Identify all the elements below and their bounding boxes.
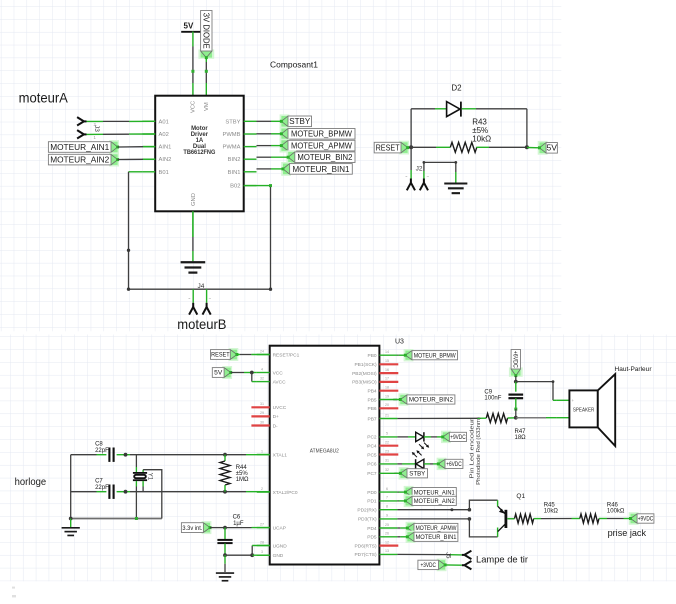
svg-text:B01: B01 bbox=[159, 170, 169, 176]
wire +6VDC down bbox=[515, 376, 517, 382]
svg-text:PB1(SCK): PB1(SCK) bbox=[354, 362, 377, 368]
wire MOTEUR_AIN1 bbox=[397, 491, 398, 493]
svg-text:3V DIODE: 3V DIODE bbox=[202, 13, 211, 49]
svg-text:12: 12 bbox=[385, 540, 389, 544]
connector J5 bbox=[462, 554, 465, 556]
svg-text:23: 23 bbox=[385, 449, 389, 453]
svg-text:PC7: PC7 bbox=[367, 471, 377, 477]
net flag MOTEUR_BPMW bbox=[280, 127, 290, 141]
svg-text:15: 15 bbox=[385, 359, 389, 363]
svg-text:10kΩ: 10kΩ bbox=[472, 135, 491, 144]
svg-text:MOTEUR_BPMW: MOTEUR_BPMW bbox=[414, 352, 457, 359]
wire 5V to VCC pin bbox=[192, 32, 194, 47]
svg-text:BIN2: BIN2 bbox=[228, 157, 241, 163]
wire 3.3v int to UCAP bbox=[210, 527, 225, 529]
svg-text:22: 22 bbox=[385, 441, 389, 445]
svg-text:A02: A02 bbox=[159, 132, 169, 138]
svg-text:30: 30 bbox=[260, 420, 264, 424]
svg-text:PB6: PB6 bbox=[368, 406, 377, 412]
svg-text:R46: R46 bbox=[607, 503, 619, 509]
wire MOTEUR_APMW bbox=[397, 527, 400, 529]
connector J2 bbox=[410, 147, 412, 170]
svg-text:C8: C8 bbox=[95, 441, 103, 447]
svg-text:18Ω: 18Ω bbox=[515, 435, 527, 441]
svg-text:PD3(TX): PD3(TX) bbox=[358, 517, 377, 523]
net flag RESET U3 bbox=[229, 348, 239, 361]
wire +6VDC to speaker pin1 bbox=[516, 382, 553, 401]
net flag +9VDC jack bbox=[629, 512, 639, 525]
resistor R47 bbox=[486, 414, 507, 423]
svg-text:PB3(MISO): PB3(MISO) bbox=[352, 380, 377, 386]
svg-text:Y1: Y1 bbox=[147, 473, 153, 481]
junction +6VDC bbox=[514, 380, 518, 384]
junction C9 bottom bbox=[514, 416, 518, 420]
ground horloge bbox=[70, 519, 72, 528]
svg-text:22pF: 22pF bbox=[95, 485, 109, 491]
svg-text:PC5: PC5 bbox=[367, 452, 377, 458]
svg-text:5V: 5V bbox=[214, 370, 223, 377]
svg-text:D-: D- bbox=[273, 423, 278, 429]
svg-text:25: 25 bbox=[385, 523, 389, 527]
svg-text:AIN1: AIN1 bbox=[159, 145, 172, 151]
net flag +6VDC top bbox=[509, 367, 523, 376]
svg-text:29: 29 bbox=[260, 411, 264, 415]
svg-text:Q1: Q1 bbox=[516, 493, 525, 500]
wire LED1 to +9VDC bbox=[424, 436, 431, 438]
wire to +9VDC bbox=[624, 518, 631, 520]
connector J4 bbox=[192, 289, 194, 303]
svg-text:32: 32 bbox=[260, 376, 264, 380]
net flag MOTEUR_AIN2 bbox=[109, 153, 119, 167]
svg-text:D+: D+ bbox=[273, 414, 279, 420]
speaker SPEAKER bbox=[569, 390, 597, 427]
wire PD3 to Q1 bbox=[397, 518, 469, 520]
svg-text:PWMB: PWMB bbox=[222, 132, 240, 138]
net flag STBY f bbox=[399, 467, 409, 479]
wire Q1 base to R45 bbox=[507, 518, 514, 520]
wire J3 pin1 to A02 bbox=[87, 133, 104, 135]
svg-text:18: 18 bbox=[385, 386, 389, 390]
svg-text:MOTEUR_AIN2: MOTEUR_AIN2 bbox=[50, 155, 109, 165]
wire LED2 to +6VDC bbox=[424, 463, 430, 465]
svg-text:1MΩ: 1MΩ bbox=[236, 477, 249, 483]
wire +3VDC to J5 bbox=[445, 564, 462, 566]
crystal Y1 bbox=[135, 455, 137, 467]
svg-text:B02: B02 bbox=[230, 184, 240, 190]
net flag +6VDC led bbox=[437, 458, 447, 470]
wire PB7 to speaker net bbox=[397, 417, 477, 419]
led emission arrows LED1 bbox=[419, 444, 422, 447]
resistor R46 bbox=[580, 514, 599, 523]
IC motor driver TB6612FNG bbox=[155, 96, 244, 212]
ground motor driver bbox=[192, 237, 194, 251]
net flag +9VDC led bbox=[441, 431, 451, 443]
svg-text:32: 32 bbox=[385, 468, 389, 472]
svg-text:+9VDC: +9VDC bbox=[450, 434, 466, 441]
wire MOTEUR_AIN2 to AIN2 bbox=[118, 158, 143, 160]
svg-text:Photodiode Red (633nm): Photodiode Red (633nm) bbox=[476, 417, 482, 485]
speaker stubs bbox=[557, 399, 570, 401]
wire 3V DIODE to VM pin bbox=[205, 58, 207, 62]
bendpoint bbox=[127, 249, 130, 252]
svg-text:MOTEUR_BIN2: MOTEUR_BIN2 bbox=[409, 397, 453, 404]
svg-text:+6VDC: +6VDC bbox=[446, 461, 462, 468]
svg-text:PB5: PB5 bbox=[368, 397, 377, 403]
svg-text:10kΩ: 10kΩ bbox=[544, 509, 559, 515]
net flag +3VDC bbox=[437, 559, 447, 572]
net flag MOTEUR_BIN1 f bbox=[406, 531, 416, 543]
ground J2 bbox=[455, 172, 457, 183]
svg-text:BIN1: BIN1 bbox=[228, 170, 241, 176]
svg-text:PD2(RX): PD2(RX) bbox=[357, 508, 377, 514]
svg-text:AIN2: AIN2 bbox=[159, 157, 172, 163]
svg-text:PD5: PD5 bbox=[367, 535, 377, 541]
svg-text:RESET: RESET bbox=[376, 143, 401, 153]
svg-text:Lampe de tir: Lampe de tir bbox=[476, 555, 528, 565]
svg-text:21: 21 bbox=[385, 413, 389, 417]
svg-text:GND: GND bbox=[273, 553, 284, 559]
svg-text:UVCC: UVCC bbox=[273, 405, 287, 411]
svg-text:STBY: STBY bbox=[225, 119, 240, 125]
led emission arrows LED2 bbox=[414, 454, 417, 457]
svg-text:MOTEUR_APMW: MOTEUR_APMW bbox=[415, 525, 457, 532]
bottom left faint mark bbox=[12, 587, 15, 589]
wire STBY bbox=[394, 472, 397, 474]
svg-text:2: 2 bbox=[261, 487, 263, 491]
crystal jog wire bbox=[143, 470, 162, 519]
svg-text:5: 5 bbox=[386, 432, 388, 436]
svg-text:MOTEUR_BIN1: MOTEUR_BIN1 bbox=[415, 534, 456, 541]
svg-text:MOTEUR_APMW: MOTEUR_APMW bbox=[291, 141, 353, 151]
svg-text:PB4: PB4 bbox=[368, 389, 377, 395]
svg-text:26: 26 bbox=[385, 532, 389, 536]
led LED1 red bbox=[397, 436, 408, 438]
svg-text:PB7: PB7 bbox=[368, 416, 377, 422]
net flag 3.3v int. bbox=[202, 521, 212, 534]
wire PD2 to Q1 bbox=[397, 509, 469, 511]
junction C8 right bbox=[124, 453, 128, 457]
svg-text:TB6612FNG: TB6612FNG bbox=[183, 150, 215, 156]
junction node right bbox=[525, 145, 529, 149]
svg-text:XTAL2/PC0: XTAL2/PC0 bbox=[273, 490, 298, 496]
wire J3 pin2 to A01 bbox=[87, 120, 104, 122]
svg-text:U3: U3 bbox=[395, 339, 404, 346]
ground C6 bbox=[224, 555, 226, 564]
wire MOTEUR_BIN2 bbox=[257, 156, 272, 158]
svg-text:PD7(CTS): PD7(CTS) bbox=[354, 552, 377, 558]
svg-text:AVCC: AVCC bbox=[273, 379, 287, 385]
wire 5V to VCC AVCC bbox=[231, 372, 244, 374]
wire MOTEUR_BPMW bbox=[257, 133, 272, 135]
svg-text:17: 17 bbox=[385, 377, 389, 381]
net flag MOTEUR_BIN2 f bbox=[399, 393, 409, 405]
svg-text:1µF: 1µF bbox=[233, 521, 244, 527]
junction PD3 bbox=[468, 517, 472, 521]
svg-text:MOTEUR_AIN1: MOTEUR_AIN1 bbox=[50, 142, 109, 152]
junction C6 bottom bbox=[223, 553, 227, 557]
svg-text:100kΩ: 100kΩ bbox=[607, 509, 625, 515]
svg-text:SPEAKER: SPEAKER bbox=[573, 408, 595, 414]
net flag MOTEUR_AIN1 f bbox=[404, 486, 414, 498]
wire MOTEUR_APMW bbox=[257, 145, 272, 147]
svg-text:PC6: PC6 bbox=[367, 462, 377, 468]
svg-text:+9VDC: +9VDC bbox=[638, 516, 654, 523]
svg-text:MOTEUR_BIN1: MOTEUR_BIN1 bbox=[292, 164, 349, 174]
svg-text:+3VDC: +3VDC bbox=[420, 562, 436, 569]
svg-text:13: 13 bbox=[385, 549, 389, 553]
resistor R45 bbox=[515, 514, 534, 523]
svg-text:J4: J4 bbox=[198, 283, 205, 290]
svg-text:5V: 5V bbox=[184, 22, 194, 31]
junction node left bbox=[409, 145, 413, 149]
svg-text:PB0: PB0 bbox=[368, 353, 377, 359]
IC U3 ATMEGA8U2 bbox=[270, 346, 380, 565]
svg-text:4: 4 bbox=[261, 367, 263, 371]
net flag MOTEUR_APMW f bbox=[406, 522, 416, 534]
wire RESET to node bbox=[408, 146, 412, 148]
net flag MOTEUR_BIN2 bbox=[286, 150, 296, 164]
svg-text:MOTEUR_BPMW: MOTEUR_BPMW bbox=[291, 129, 353, 139]
wire MOTEUR_BIN2 bbox=[393, 399, 397, 401]
grid background top sheet bbox=[0, 0, 561, 331]
pin stubs motor driver right bbox=[244, 120, 257, 122]
wire RESET to RESET/PC1 bbox=[237, 354, 240, 356]
svg-text:100nF: 100nF bbox=[484, 396, 501, 402]
svg-text:UCAP: UCAP bbox=[273, 525, 286, 531]
net flag MOTEUR_BPMW f bbox=[404, 349, 414, 361]
wire B01 B02 loop to J4 bbox=[129, 171, 143, 173]
svg-text:PD6(RTS): PD6(RTS) bbox=[355, 543, 377, 549]
svg-text:VCC: VCC bbox=[273, 370, 284, 376]
svg-text:moteurA: moteurA bbox=[19, 90, 69, 106]
svg-text:PC2: PC2 bbox=[367, 435, 377, 441]
svg-text:22pF: 22pF bbox=[95, 448, 109, 454]
grid background bottom sheet bbox=[0, 335, 676, 582]
svg-text:20: 20 bbox=[385, 403, 389, 407]
svg-text:J3: J3 bbox=[93, 125, 100, 132]
svg-text:5V: 5V bbox=[546, 143, 557, 153]
pin stub GND bottom bbox=[192, 211, 194, 237]
svg-text:Pin Led encodeur: Pin Led encodeur bbox=[470, 418, 476, 478]
svg-text:14: 14 bbox=[385, 350, 389, 354]
svg-text:J2: J2 bbox=[416, 166, 423, 173]
wire XTAL2 net bbox=[71, 491, 97, 493]
svg-text:Haut-Parleur: Haut-Parleur bbox=[615, 366, 653, 373]
junction C7 right bbox=[124, 490, 128, 494]
svg-text:horloge: horloge bbox=[15, 477, 47, 488]
svg-text:31: 31 bbox=[385, 459, 389, 463]
svg-text:1: 1 bbox=[261, 449, 263, 453]
svg-text:UGND: UGND bbox=[273, 543, 288, 549]
svg-text:MOTEUR_AIN2: MOTEUR_AIN2 bbox=[414, 498, 455, 505]
junction PD2 bbox=[468, 508, 472, 512]
net flag MOTEUR_BIN1 bbox=[281, 162, 291, 176]
svg-text:PB2(MOSI): PB2(MOSI) bbox=[352, 371, 377, 377]
svg-text:C6: C6 bbox=[233, 514, 241, 520]
svg-text:J5: J5 bbox=[444, 552, 450, 559]
wire XTAL1 net bbox=[71, 454, 97, 456]
svg-text:PD4: PD4 bbox=[367, 526, 377, 532]
svg-text:16: 16 bbox=[385, 368, 389, 372]
net flag 5V bbox=[538, 141, 548, 155]
wire STBY bbox=[257, 120, 272, 122]
svg-text:ATMEGA8U2: ATMEGA8U2 bbox=[310, 449, 339, 455]
net flag MOTEUR_AIN1 bbox=[109, 140, 119, 154]
net flag MOTEUR_AIN2 f bbox=[404, 495, 414, 507]
svg-text:C7: C7 bbox=[95, 478, 103, 484]
svg-text:STBY: STBY bbox=[289, 116, 310, 126]
resistor R44 bbox=[223, 453, 227, 457]
net flag MOTEUR_APMW bbox=[280, 139, 290, 153]
svg-text:D2: D2 bbox=[451, 84, 462, 93]
svg-text:STBY: STBY bbox=[409, 470, 426, 477]
svg-text:A01: A01 bbox=[159, 119, 169, 125]
svg-text:6: 6 bbox=[386, 487, 388, 491]
wire GND UGND bbox=[225, 554, 252, 556]
wire node to 5V bbox=[527, 147, 540, 149]
svg-text:VCC: VCC bbox=[191, 101, 197, 113]
svg-text:+6VDC: +6VDC bbox=[512, 351, 519, 368]
wire MOTEUR_BIN1 bbox=[397, 536, 400, 538]
svg-text:prise jack: prise jack bbox=[608, 528, 647, 538]
wire MOTEUR_BIN1 bbox=[257, 168, 272, 170]
ground rail horloge bbox=[70, 455, 72, 519]
svg-text:VM: VM bbox=[204, 102, 210, 111]
svg-text:PD1: PD1 bbox=[367, 499, 377, 505]
svg-text:19: 19 bbox=[385, 394, 389, 398]
connector J3 bbox=[84, 120, 87, 122]
svg-text:RESET: RESET bbox=[211, 352, 230, 359]
net flag STBY bbox=[280, 114, 290, 128]
net flag 3V DIODE bbox=[198, 49, 214, 58]
svg-text:GND: GND bbox=[191, 193, 197, 206]
svg-text:moteurB: moteurB bbox=[177, 316, 226, 332]
svg-text:27: 27 bbox=[260, 522, 264, 526]
svg-text:XTAL1: XTAL1 bbox=[273, 452, 288, 458]
led LED2 photodiode bbox=[397, 463, 402, 465]
svg-text:PWMA: PWMA bbox=[222, 145, 240, 151]
svg-text:3.3v int.: 3.3v int. bbox=[182, 525, 202, 532]
net flag 5V U3 bbox=[222, 366, 232, 379]
svg-text:PC4: PC4 bbox=[367, 444, 377, 450]
wire MOTEUR_AIN1 to AIN1 bbox=[118, 146, 143, 148]
svg-text:8: 8 bbox=[386, 505, 388, 509]
svg-text:PD0: PD0 bbox=[367, 490, 377, 496]
svg-text:MOTEUR_BIN2: MOTEUR_BIN2 bbox=[297, 152, 352, 162]
net flag RESET bbox=[399, 141, 409, 155]
svg-text:3: 3 bbox=[261, 550, 263, 554]
svg-text:MOTEUR_AIN1: MOTEUR_AIN1 bbox=[414, 489, 455, 496]
svg-text:7: 7 bbox=[386, 496, 388, 500]
svg-text:24: 24 bbox=[260, 349, 264, 353]
svg-text:9: 9 bbox=[386, 514, 388, 518]
svg-text:R45: R45 bbox=[544, 503, 556, 509]
pin stubs motor driver left bbox=[142, 120, 155, 122]
svg-text:RESET/PC1: RESET/PC1 bbox=[273, 352, 300, 358]
svg-text:31: 31 bbox=[260, 402, 264, 406]
svg-text:28: 28 bbox=[260, 540, 264, 544]
wire MOTEUR_AIN2 bbox=[397, 500, 398, 502]
wire MOTEUR_BPMW bbox=[397, 354, 398, 356]
wire PD7 to J5 bbox=[397, 553, 450, 555]
svg-text:Composant1: Composant1 bbox=[270, 60, 318, 70]
